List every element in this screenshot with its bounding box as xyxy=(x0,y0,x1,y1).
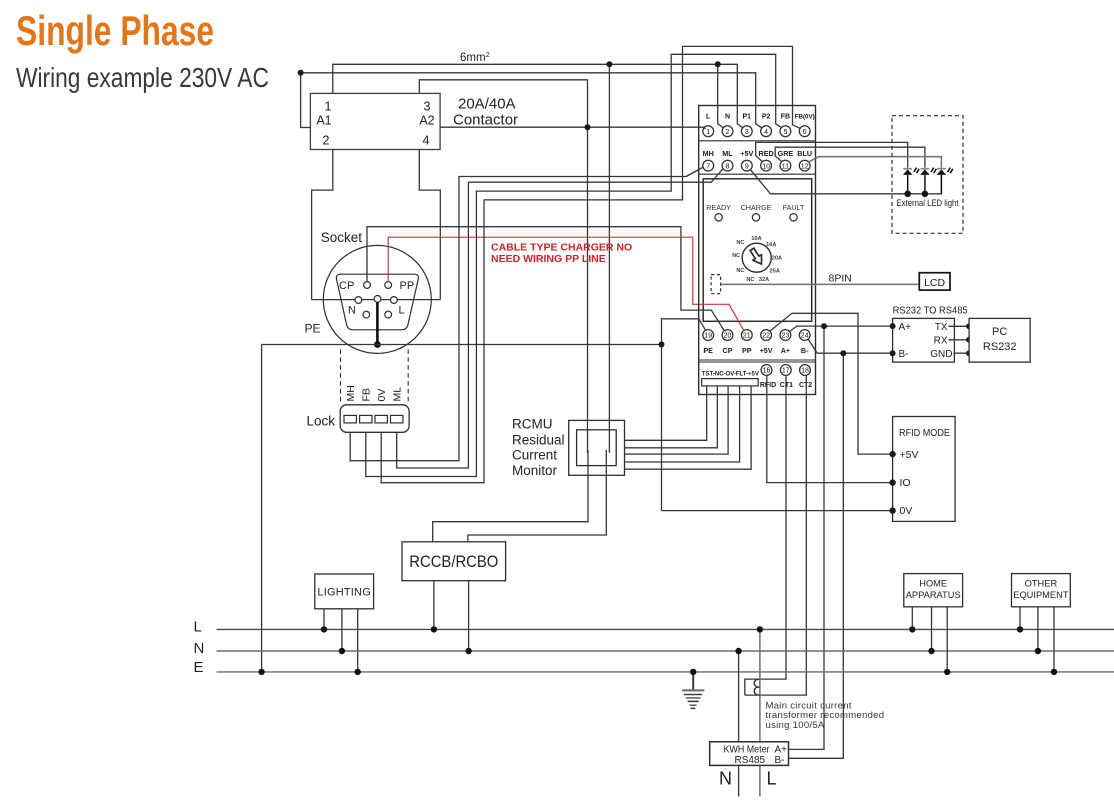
svg-text:GRE: GRE xyxy=(778,149,794,158)
svg-text:+5V: +5V xyxy=(760,346,773,355)
svg-text:RS485: RS485 xyxy=(735,755,766,766)
svg-text:RFID: RFID xyxy=(760,382,776,389)
wire: lock 0V to unit FB(0V)(6) xyxy=(381,46,800,482)
svg-text:0V: 0V xyxy=(900,505,913,517)
wire: RCCB to N bus xyxy=(468,581,470,651)
svg-text:RS232: RS232 xyxy=(983,341,1017,353)
terminal 9 (+5V) xyxy=(741,160,752,171)
lock dashed guides xyxy=(341,350,409,404)
unit divider row2 xyxy=(699,173,816,175)
wire: lock MH to unit MH(7) xyxy=(350,167,703,461)
wire stub CP(20) xyxy=(699,310,725,331)
RCMU inner box xyxy=(577,430,617,466)
svg-text:RED: RED xyxy=(759,149,774,158)
wire: L branch down to RCMU xyxy=(587,127,589,453)
wire: RFID(16) to RFID MODE IO xyxy=(767,375,893,482)
LED symbol xyxy=(920,168,936,194)
svg-text:Wiring example 230V AC: Wiring example 230V AC xyxy=(16,63,269,94)
svg-text:NC: NC xyxy=(736,268,744,274)
wire: 0V run to RFID MODE xyxy=(662,510,893,512)
socket circle face xyxy=(323,245,431,353)
pin dots RFID MODE xyxy=(889,451,895,457)
svg-text:GND: GND xyxy=(930,349,952,360)
svg-text:ML: ML xyxy=(392,387,404,402)
wires OTHER EQUIPMENT xyxy=(1020,607,1054,672)
svg-text:NC: NC xyxy=(736,240,744,246)
wire: BLU(12) to LED3 xyxy=(809,157,942,168)
CT note text xyxy=(766,700,885,731)
socket PE pin thick lead xyxy=(376,302,379,344)
unit bottom row labels xyxy=(703,346,809,355)
svg-text:A+: A+ xyxy=(781,346,790,355)
unit divider row3/4 xyxy=(699,360,816,362)
wire stub PP(21) red xyxy=(699,304,744,331)
svg-text:RX: RX xyxy=(934,336,948,347)
svg-text:TX: TX xyxy=(935,322,948,333)
svg-text:CABLE TYPE CHARGER NO: CABLE TYPE CHARGER NO xyxy=(491,241,632,253)
status LEDs READY CHARGE FAULT xyxy=(706,203,805,212)
junction dot B- xyxy=(840,350,846,356)
svg-text:10A: 10A xyxy=(751,236,761,242)
LED symbol xyxy=(903,168,919,194)
bus labels xyxy=(194,619,205,676)
svg-text:NEED WIRING PP LINE: NEED WIRING PP LINE xyxy=(491,253,606,265)
svg-text:L: L xyxy=(706,114,711,121)
HOME APPARATUS box xyxy=(904,574,963,607)
svg-text:NC: NC xyxy=(732,253,740,259)
svg-text:TST-NC-OV-FLT-+5V: TST-NC-OV-FLT-+5V xyxy=(702,371,759,378)
rotary current selector switch xyxy=(742,243,771,272)
unit second row labels xyxy=(703,149,812,158)
wire (red): socket PP to unit PP(21) xyxy=(388,237,744,331)
svg-text:+5V: +5V xyxy=(740,149,753,158)
wire stubs into unit terminals xyxy=(699,127,706,129)
svg-text:Single Phase: Single Phase xyxy=(16,7,214,54)
wires: LIGHTING to buses xyxy=(324,609,358,672)
charge controller unit outer box xyxy=(699,106,816,395)
svg-text:LIGHTING: LIGHTING xyxy=(317,587,371,599)
svg-text:E: E xyxy=(194,659,204,676)
terminal 16 (RFID) xyxy=(761,365,772,376)
svg-text:MH: MH xyxy=(703,149,714,158)
8PIN connector dashed xyxy=(711,275,721,294)
svg-text:6: 6 xyxy=(803,129,807,136)
svg-text:7: 7 xyxy=(706,163,710,170)
wires HOME APPARATUS xyxy=(912,607,947,672)
svg-text:N: N xyxy=(194,640,205,657)
svg-text:4: 4 xyxy=(423,134,430,148)
terminal 11 (GRE) xyxy=(780,160,791,171)
E bus xyxy=(217,671,1114,673)
lock body xyxy=(340,405,409,433)
L bus xyxy=(217,628,1114,630)
terminal 23 (A+) xyxy=(780,330,791,341)
wire: A2 to unit L(1) xyxy=(440,127,705,128)
svg-text:Contactor: Contactor xyxy=(453,112,518,129)
terminal 2 (N) xyxy=(722,126,733,137)
svg-text:READY: READY xyxy=(706,203,731,212)
terminal 20 (CP) xyxy=(722,330,733,341)
svg-text:2: 2 xyxy=(726,129,730,136)
svg-text:P1: P1 xyxy=(743,114,752,121)
wire: lock ML to unit ML(8) xyxy=(397,169,724,469)
PC RS232 box xyxy=(969,318,1030,362)
svg-text:CHARGE: CHARGE xyxy=(741,203,772,212)
wire: B- branch down to KWH meter xyxy=(789,353,844,758)
socket D-shape xyxy=(336,274,418,330)
svg-text:0V: 0V xyxy=(376,389,388,402)
junction dot N/terminal2 xyxy=(715,61,721,67)
wire: N drop to terminal 2 xyxy=(718,64,724,128)
wire stub ML(8) xyxy=(699,169,724,183)
svg-text:3: 3 xyxy=(424,100,431,114)
socket pin labels xyxy=(339,280,414,317)
unit body box xyxy=(703,179,812,321)
svg-text:A+: A+ xyxy=(775,744,788,755)
svg-text:L: L xyxy=(399,305,405,317)
terminal 7 (MH) xyxy=(703,160,714,171)
svg-text:19: 19 xyxy=(704,333,712,340)
svg-text:OTHER: OTHER xyxy=(1025,579,1058,589)
svg-text:N: N xyxy=(348,305,356,317)
svg-text:N: N xyxy=(725,114,730,121)
lock terminals xyxy=(344,415,356,423)
wire: A+ branch down to KWH meter xyxy=(789,326,825,749)
rotary scale labels xyxy=(732,236,782,283)
wire: GRE(11) to LED2 xyxy=(775,147,925,168)
svg-text:Current: Current xyxy=(512,448,557,463)
junction dot ground xyxy=(690,669,696,675)
svg-text:1: 1 xyxy=(325,100,332,114)
terminal 18 (CT2) xyxy=(800,365,811,376)
wire: RCCB to L bus xyxy=(433,581,435,630)
wires: terminal strip to RCMU xyxy=(625,386,707,440)
junction dot N/RCMU xyxy=(606,61,612,67)
wire: CT2(18) to transformer xyxy=(745,375,807,695)
svg-text:16A: 16A xyxy=(766,242,776,248)
svg-text:16: 16 xyxy=(763,368,771,375)
svg-text:20: 20 xyxy=(724,333,732,340)
RS485 converter box xyxy=(893,318,955,362)
terminal 3 (P1) xyxy=(741,126,752,137)
terminal 6 (FB(0V)) xyxy=(799,126,810,137)
svg-text:PE: PE xyxy=(703,346,713,355)
terminal 10 (RED) xyxy=(761,160,772,171)
wire: N net (contactor 1 top to unit N(2) and P1(3), branch to RCMU) xyxy=(333,64,743,128)
svg-text:ML: ML xyxy=(722,149,733,158)
terminal 21 (PP) xyxy=(741,330,752,341)
pin dots RS485 A+/B- xyxy=(890,323,896,329)
wire: contactor 3 top to A2/L(1) net xyxy=(419,80,587,127)
svg-text:+5V: +5V xyxy=(900,449,919,461)
svg-text:L: L xyxy=(766,769,776,789)
svg-text:B-: B- xyxy=(899,349,909,360)
RFID MODE box xyxy=(893,417,956,522)
svg-text:CP: CP xyxy=(723,346,733,355)
terminal 22 (+5V) xyxy=(761,330,772,341)
svg-text:21: 21 xyxy=(743,333,751,340)
KWH meter box xyxy=(710,742,789,766)
svg-text:CT2: CT2 xyxy=(799,382,812,389)
wire: socket CP to unit CP(20) xyxy=(367,227,724,331)
socket enclosure bottom edge xyxy=(312,299,441,301)
wire: PE riser to unit PE(19) xyxy=(662,319,706,511)
svg-text:Residual: Residual xyxy=(512,432,565,447)
svg-text:A+: A+ xyxy=(899,322,912,333)
unit divider row1 xyxy=(699,140,816,142)
wire: lock FB to unit FB(5) xyxy=(366,54,782,476)
terminal 17 (CT1) xyxy=(780,365,791,376)
svg-text:23: 23 xyxy=(782,333,790,340)
svg-text:1: 1 xyxy=(706,129,710,136)
svg-text:RFID MODE: RFID MODE xyxy=(899,428,950,439)
svg-text:PP: PP xyxy=(400,280,415,292)
svg-text:using 100/5A: using 100/5A xyxy=(766,720,825,731)
svg-text:L: L xyxy=(194,619,202,636)
svg-text:25A: 25A xyxy=(770,269,780,275)
CT coil xyxy=(754,679,759,695)
svg-text:2: 2 xyxy=(323,134,330,148)
LIGHTING box xyxy=(315,574,374,609)
svg-text:6mm2: 6mm2 xyxy=(460,50,490,64)
svg-text:PE: PE xyxy=(305,322,321,336)
wire stub PE(19) xyxy=(699,319,706,330)
svg-text:APPARATUS: APPARATUS xyxy=(906,590,961,600)
svg-text:8PIN: 8PIN xyxy=(829,273,852,285)
svg-text:FB: FB xyxy=(781,114,790,121)
LCD box xyxy=(919,273,950,290)
junction dots LED bus xyxy=(904,191,911,198)
svg-text:FB: FB xyxy=(361,388,373,401)
junction dot L net xyxy=(585,124,591,130)
svg-text:RCCB/RCBO: RCCB/RCBO xyxy=(409,553,498,571)
wire: N branch down to RCMU xyxy=(608,64,610,453)
svg-text:A1: A1 xyxy=(316,114,331,128)
svg-text:FAULT: FAULT xyxy=(783,203,805,212)
wire: +5V(22) to RFID MODE +5V xyxy=(770,313,893,454)
svg-text:RCMU: RCMU xyxy=(512,417,553,432)
terminal 12 (BLU) xyxy=(799,160,810,171)
svg-text:MH: MH xyxy=(345,385,357,401)
svg-text:B-: B- xyxy=(775,755,785,766)
OTHER EQUIPMENT box xyxy=(1012,574,1071,607)
svg-text:Lock: Lock xyxy=(307,414,336,429)
junction dot socket PE xyxy=(374,341,381,348)
svg-text:EQUIPMENT: EQUIPMENT xyxy=(1013,590,1069,600)
svg-text:3: 3 xyxy=(745,129,749,136)
terminal 8 (ML) xyxy=(722,160,733,171)
contactor K1 box xyxy=(310,93,440,149)
svg-text:10: 10 xyxy=(762,163,770,170)
svg-text:32A: 32A xyxy=(759,277,769,283)
svg-text:18: 18 xyxy=(801,368,809,375)
terminal 19 (PE) xyxy=(703,330,714,341)
svg-text:LCD: LCD xyxy=(924,277,945,289)
junction dot A1 corner xyxy=(298,70,304,76)
svg-text:12: 12 xyxy=(801,163,809,170)
wires: TX RX GND to PC xyxy=(949,326,970,353)
svg-text:Socket: Socket xyxy=(321,230,363,245)
wire: +5V(9) to LED common bus xyxy=(751,170,942,194)
terminal 1 (L) xyxy=(703,126,714,137)
svg-text:FB(0V): FB(0V) xyxy=(795,114,815,121)
wire: L bus down to KWH meter through CT xyxy=(759,629,761,796)
N bus xyxy=(217,650,1114,652)
external LED dashed box xyxy=(892,116,963,234)
svg-text:9: 9 xyxy=(745,163,749,170)
svg-text:Monitor: Monitor xyxy=(512,463,558,478)
svg-text:17: 17 xyxy=(782,368,790,375)
RCMU outer box xyxy=(569,420,625,475)
socket pins xyxy=(364,282,371,289)
svg-text:KWH Meter: KWH Meter xyxy=(724,744,771,755)
wire: L/N feed through RCMU top xyxy=(588,420,610,453)
wire stub MH(7) xyxy=(686,167,703,177)
wire: N bus down to KWH meter xyxy=(738,651,740,797)
svg-text:RS232 TO RS485: RS232 TO RS485 xyxy=(893,305,968,316)
svg-text:24: 24 xyxy=(801,333,809,340)
svg-text:B-: B- xyxy=(801,346,809,355)
svg-text:22: 22 xyxy=(762,333,770,340)
junction dot PE corner xyxy=(659,342,665,348)
svg-text:External LED light: External LED light xyxy=(897,198,959,209)
wire: A1 to P2(4) net xyxy=(301,73,762,128)
RCMU label xyxy=(512,417,565,478)
svg-text:11: 11 xyxy=(782,163,789,170)
wire: N through RCMU to RCCB xyxy=(468,450,606,542)
wire: 8PIN to LCD xyxy=(721,283,920,285)
terminal 5 (FB) xyxy=(780,126,791,137)
svg-text:20A: 20A xyxy=(772,256,782,262)
wire: L through RCMU to RCCB xyxy=(433,450,588,542)
wire: B-(24) to RS485 B- xyxy=(808,339,892,353)
bus junction dots xyxy=(321,626,327,632)
svg-text:HOME: HOME xyxy=(919,579,947,589)
wire: A+(23) to RS485 A+ xyxy=(790,326,893,331)
svg-text:PP: PP xyxy=(742,346,752,355)
wire: PE net horizontal (socket PE to E bus and to unit PE(19)/0V) xyxy=(262,344,662,346)
junction dot A+ xyxy=(821,323,827,329)
contactor terminal labels xyxy=(316,100,434,148)
svg-text:A2: A2 xyxy=(419,114,434,128)
terminal strip block xyxy=(702,379,759,386)
svg-text:PC: PC xyxy=(992,326,1007,338)
svg-text:BLU: BLU xyxy=(797,149,812,158)
wire: contactor 2 down to socket enclosure left xyxy=(312,150,333,300)
ground symbol xyxy=(682,672,704,709)
svg-text:P2: P2 xyxy=(762,114,771,121)
svg-text:NC: NC xyxy=(746,277,754,283)
svg-text:4: 4 xyxy=(764,129,768,136)
svg-text:8: 8 xyxy=(726,163,730,170)
svg-text:5: 5 xyxy=(783,129,787,136)
svg-text:IO: IO xyxy=(900,477,911,489)
unit top terminal labels xyxy=(706,114,815,121)
wire: contactor 4 down to socket enclosure right xyxy=(419,150,440,300)
LED symbol xyxy=(937,168,953,194)
terminal 4 (P2) xyxy=(761,126,772,137)
terminal 24 (B-) xyxy=(799,330,810,341)
svg-text:CP: CP xyxy=(339,280,354,292)
svg-text:N: N xyxy=(719,769,732,789)
RCCB/RCBO box xyxy=(402,542,506,581)
svg-text:20A/40A: 20A/40A xyxy=(458,96,516,113)
wire: CT1(17) to transformer xyxy=(745,375,786,695)
wire: RED(10) to LED1 xyxy=(756,142,908,167)
